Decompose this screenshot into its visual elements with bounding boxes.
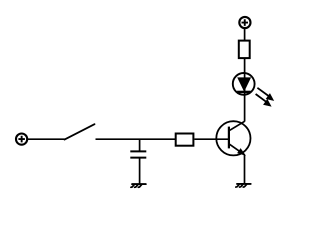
wire (capacitor lead) [139,158,141,185]
wire [194,138,229,140]
switch S1 [65,124,95,139]
terminal J1 (+V supply) [239,17,250,28]
LED emission arrows [256,88,274,106]
ground [131,184,146,187]
transistor Q1 [216,121,250,155]
resistor R2 [239,41,250,59]
wire [27,138,65,140]
capacitor C1 [130,151,146,157]
wire [244,58,246,121]
resistor R1 [176,134,194,146]
wire (capacitor lead) [139,139,141,151]
wire [96,138,176,140]
terminal J2 (input +) [16,134,27,145]
ground [236,184,251,187]
wire [244,155,246,184]
LED D1 [233,73,255,95]
wire [244,28,246,40]
